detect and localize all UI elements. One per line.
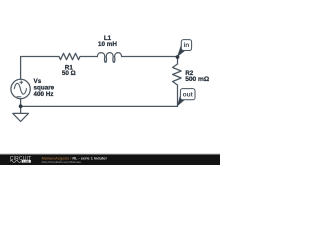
- svg-text:http://circuitlab.com/c62enau: http://circuitlab.com/c62enau: [42, 160, 82, 164]
- ground symbol: [13, 113, 29, 121]
- voltage source Vs circle: [11, 79, 30, 98]
- resistor R2 vertical: [173, 57, 182, 85]
- svg-text:in: in: [183, 42, 189, 49]
- logo LAB box: [22, 160, 31, 163]
- junction dot at node in: [176, 55, 180, 59]
- junction dot below source: [19, 104, 23, 108]
- wire R2 bottom to corner: [177, 85, 179, 106]
- inductor L1: [97, 53, 121, 63]
- svg-text:out: out: [183, 91, 194, 98]
- wire left vertical + top rail left segment: [21, 57, 59, 80]
- bottom rail wire: [21, 105, 178, 107]
- svg-text:400 Hz: 400 Hz: [34, 91, 54, 98]
- wire L1 to node in: [122, 56, 178, 58]
- wire R1 to L1: [80, 56, 97, 58]
- plus sign: [20, 81, 23, 84]
- sine wave inside source: [14, 83, 26, 94]
- logo wave: [10, 160, 21, 162]
- svg-text:LAB: LAB: [23, 159, 29, 163]
- minus sign: [17, 96, 21, 98]
- resistor R1: [59, 53, 80, 59]
- svg-text:50 Ω: 50 Ω: [62, 70, 76, 77]
- svg-text:10 mH: 10 mH: [98, 41, 117, 48]
- in flag tail: [177, 44, 185, 57]
- out flag box: [180, 89, 195, 100]
- schematic background: [0, 0, 220, 165]
- wire source bottom to ground: [20, 99, 22, 114]
- in flag box: [181, 40, 191, 51]
- svg-text:500 mΩ: 500 mΩ: [185, 76, 210, 83]
- footer bar top edge line: [0, 153, 220, 156]
- footer bar: [0, 154, 220, 165]
- out flag tail: [177, 93, 185, 107]
